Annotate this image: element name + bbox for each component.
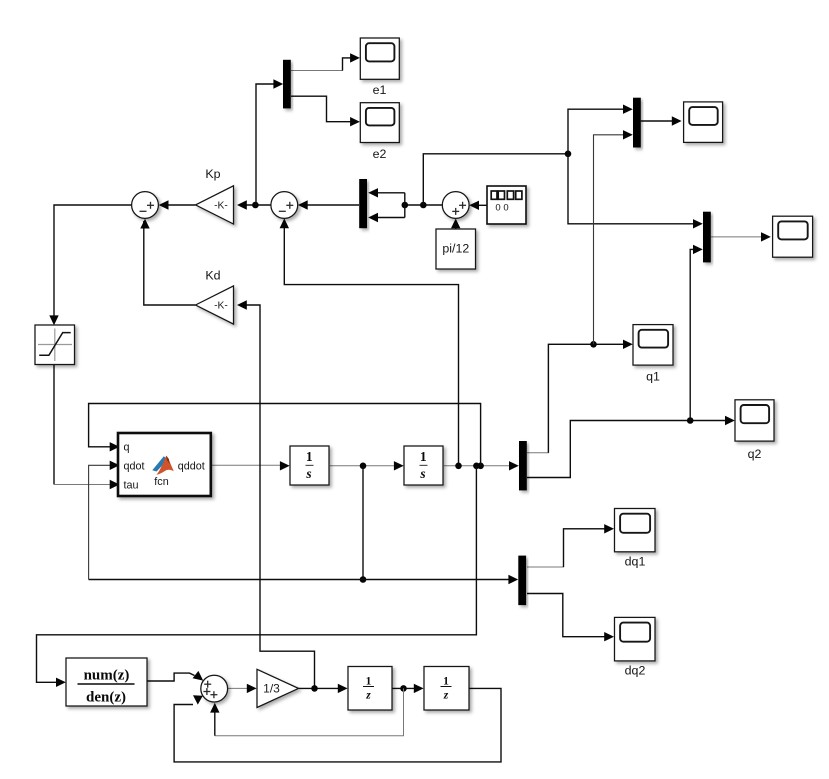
- scope q1: [633, 325, 673, 366]
- svg-text:fcn: fcn: [154, 476, 168, 488]
- wire error branch up to Demux e: [255, 84, 277, 205]
- mux Mux3 reference: [359, 179, 367, 228]
- sum Sum3 discrete filter: [201, 675, 228, 702]
- MATLAB function block fcn: [118, 433, 211, 496]
- wire reference to Mux1 input 1: [568, 109, 627, 154]
- svg-text:num(z): num(z): [84, 668, 130, 684]
- wire reference to Mux2 input 1: [568, 154, 697, 224]
- svg-text:q: q: [124, 441, 130, 453]
- node qdot junction: [360, 463, 367, 470]
- svg-text:e2: e2: [373, 147, 387, 161]
- scope q2: [735, 400, 774, 441]
- scope right unnamed: [773, 216, 813, 257]
- wire Mux3 output into Sum2: [300, 204, 359, 206]
- svg-text:1/3: 1/3: [263, 681, 280, 695]
- node junction top reference line: [565, 151, 572, 158]
- wire Sum4 output to reference split: [405, 204, 443, 206]
- node junction after gain 1/3: [311, 685, 318, 692]
- svg-text:dq2: dq2: [625, 664, 646, 678]
- wire Sum2 output to gain Kp input: [240, 204, 271, 206]
- integrator block 1/s first: [290, 446, 329, 485]
- MATLAB logo icon: [152, 456, 174, 475]
- saturation block: [35, 325, 75, 365]
- node qdot distribution junction: [360, 576, 367, 583]
- svg-text:-K-: -K-: [214, 201, 228, 212]
- svg-text:dq1: dq1: [625, 555, 646, 569]
- svg-text:0 0: 0 0: [495, 203, 508, 214]
- gain Kd: [196, 286, 234, 324]
- wire constant 0 0 block into Sum4: [471, 204, 487, 206]
- scope e2: [360, 103, 399, 143]
- wire q down-left to discrete filter input: [37, 466, 477, 683]
- wire reference loop into Mux3 inputs: [404, 193, 406, 218]
- demux for dq signals: [518, 556, 526, 606]
- unit delay block 1/z first: [348, 667, 392, 711]
- node junction after Unit Delay 1: [400, 685, 407, 692]
- wire q1 up to Mux1 input 2: [594, 135, 628, 344]
- gain Kp: [196, 186, 234, 224]
- svg-text:den(z): den(z): [86, 690, 126, 706]
- gain 1/3: [257, 669, 299, 707]
- wire Demux dq output 2 to scope dq2: [527, 594, 608, 637]
- svg-text:q1: q1: [646, 370, 660, 384]
- mux Mux2 right: [703, 212, 711, 263]
- discrete transfer function num(z)/den(z): [66, 658, 147, 706]
- scope dq2: [615, 617, 656, 661]
- wire reference up to top-right muxes: [423, 154, 568, 205]
- wire Demux q output 1 up to scope q1: [527, 344, 627, 452]
- wire discrete filter output into Sum3: [147, 673, 195, 681]
- node reference split junction: [402, 202, 409, 209]
- svg-text:z: z: [365, 689, 371, 701]
- svg-text:Kp: Kp: [205, 167, 220, 181]
- node q junction down to filter: [473, 463, 480, 470]
- wire gain Kp output into Sum1: [161, 204, 196, 206]
- mux Mux1 top right: [633, 98, 641, 148]
- wire Demux e output 1 to scope e1: [291, 58, 354, 71]
- node q1 junction: [590, 341, 597, 348]
- svg-text:1: 1: [443, 675, 449, 687]
- sum Sum1: [132, 192, 159, 219]
- unit delay block 1/z second: [424, 667, 469, 711]
- wire position feedback from integrator output up into Sum2 bottom: [284, 221, 458, 466]
- node q junction up to fcn feedback: [477, 463, 484, 470]
- wire qdot down to distribution line: [362, 466, 364, 580]
- svg-text:tau: tau: [124, 480, 139, 492]
- wire Demux e output 2 to scope e2: [291, 96, 354, 122]
- svg-text:e1: e1: [373, 83, 387, 97]
- wire qdot left and up into fcn qdot input: [89, 579, 363, 581]
- svg-text:s: s: [305, 466, 311, 481]
- svg-text:z: z: [443, 689, 449, 701]
- node q junction to Sum2 feedback: [455, 463, 462, 470]
- wire Integrator 1 to Integrator 2: [330, 465, 398, 467]
- svg-text:-K-: -K-: [214, 301, 228, 312]
- wire fcn qddot output to Integrator 1: [211, 464, 284, 466]
- wire Integrator 2 output to Demux q: [444, 465, 513, 467]
- wire Mux1 output to top scope: [641, 120, 676, 122]
- svg-text:qdot: qdot: [124, 460, 145, 472]
- demux for q signals: [519, 441, 527, 490]
- wire Sum3 output to gain 1/3: [228, 687, 251, 689]
- demux for errors e1 e2: [283, 60, 291, 109]
- integrator block 1/s second: [404, 446, 443, 485]
- sum Sum2: [271, 192, 298, 219]
- node junction on Sum2 output: [252, 202, 259, 209]
- wire constant pi/12 into Sum4 bottom: [455, 221, 457, 229]
- wire q2 up to Mux2 input 2: [690, 249, 697, 420]
- svg-text:pi/12: pi/12: [442, 242, 469, 256]
- svg-text:1: 1: [366, 675, 372, 687]
- node junction to top muxes: [420, 202, 427, 209]
- wire Unit Delay 1 to Unit Delay 2: [392, 687, 418, 689]
- scope top right unnamed: [684, 102, 723, 142]
- sum Sum4 reference: [442, 192, 469, 219]
- svg-text:q2: q2: [748, 447, 762, 461]
- wire gain Kd output left and up into Sum1 bottom: [144, 221, 196, 305]
- wire Unit Delay 2 output outer loop into Sum3: [174, 688, 501, 762]
- scope e1: [360, 38, 399, 79]
- svg-text:Kd: Kd: [205, 269, 220, 283]
- svg-text:qddot: qddot: [178, 460, 205, 472]
- svg-text:1: 1: [306, 449, 313, 464]
- svg-text:s: s: [419, 466, 425, 481]
- wire q feedback up and left into fcn q input: [89, 404, 481, 466]
- wire Saturation output down and right to tau input: [53, 365, 55, 485]
- svg-text:1: 1: [420, 449, 427, 464]
- node q2 junction: [687, 417, 694, 424]
- wire Mux2 output to right scope: [711, 236, 765, 238]
- wire sum Sum1 output to Saturation input: [54, 205, 132, 319]
- constant display block 0 0: [487, 186, 526, 224]
- scope dq1: [615, 509, 656, 552]
- wire derivative feedback from filter loop up to gain Kd input: [240, 305, 315, 688]
- wire Demux dq output 1 to scope dq1: [527, 529, 608, 567]
- wire gain 1/3 output to Unit Delay 1: [299, 687, 343, 689]
- wire Demux q output 2 up to scope q2: [527, 421, 729, 478]
- wire Unit Delay 1 feedback into Sum3 bottom: [215, 688, 404, 735]
- wire qdot right to Demux dq: [363, 579, 512, 581]
- constant block pi/12: [436, 229, 476, 269]
